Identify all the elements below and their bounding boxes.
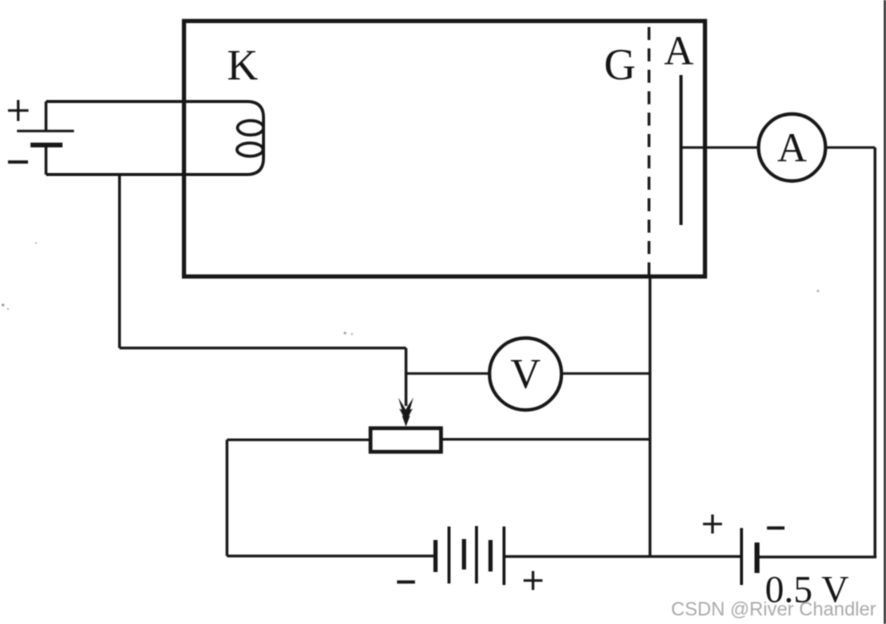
wire left vertical to bottom — [226, 440, 229, 556]
wire wiper to voltmeter — [406, 372, 490, 375]
battery B3 negative plate — [755, 543, 760, 574]
wire grid net vertical — [649, 277, 652, 557]
wire B1 plus terminal — [45, 102, 48, 132]
battery B1 positive plate — [17, 130, 74, 133]
wire anode to ammeter — [681, 146, 759, 149]
label plus B3 — [703, 515, 722, 534]
wire bottom left — [227, 555, 434, 558]
voltmeter V — [490, 338, 562, 410]
label minus B3 — [767, 526, 785, 529]
battery B1 negative plate — [31, 143, 63, 148]
label plus B2 — [524, 571, 543, 590]
wire to wiper — [120, 347, 407, 350]
label plus B1 — [8, 100, 29, 121]
grid G electrode (dashed) — [648, 27, 651, 275]
label minus B2 — [397, 580, 415, 583]
battery B3 positive plate — [740, 528, 743, 585]
svg-text:A: A — [664, 27, 694, 73]
wire right vertical — [874, 148, 877, 558]
ammeter A — [759, 114, 826, 181]
battery B2 cell plates — [436, 526, 505, 585]
filament heater coil (cathode K) — [46, 102, 264, 175]
wire potentiometer to grid net — [441, 438, 650, 441]
wire voltmeter to grid net — [562, 372, 651, 375]
wire ammeter to right vertical — [826, 146, 876, 149]
svg-text:K: K — [227, 43, 258, 90]
wiper shaft wire — [405, 348, 408, 406]
svg-text:CSDN @River Chandler: CSDN @River Chandler — [671, 600, 877, 621]
wire left to potentiometer — [227, 438, 370, 441]
vacuum tube envelope — [184, 21, 705, 277]
svg-text:V: V — [510, 352, 540, 398]
wire down from filament return — [118, 175, 121, 349]
wiper arrowhead — [398, 398, 413, 427]
wire bottom middle — [504, 555, 740, 558]
label minus B1 — [8, 160, 28, 163]
svg-text:G: G — [604, 40, 636, 89]
svg-text:A: A — [777, 124, 807, 170]
anode A plate — [679, 75, 682, 225]
wire B1 minus terminal — [45, 145, 48, 175]
potentiometer R1 body — [371, 428, 442, 452]
wire bottom right — [758, 556, 877, 559]
